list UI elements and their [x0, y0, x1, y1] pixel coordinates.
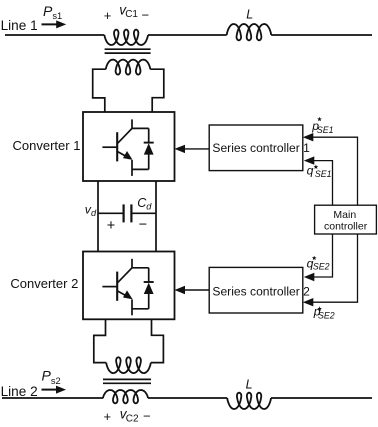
wire Line 2 left segment [2, 397, 103, 399]
IGBT transistor [102, 259, 148, 316]
transformer T1 primary coil [104, 30, 148, 45]
svg-text:−: − [142, 8, 150, 23]
series controller 1 box [209, 125, 303, 171]
emitter arrowhead [123, 151, 133, 160]
svg-text:+: + [107, 218, 115, 234]
svg-text:SE1: SE1 [317, 125, 334, 135]
arrowhead pSE1 [303, 133, 314, 141]
svg-text:−: − [139, 217, 147, 233]
svg-text:SE1: SE1 [315, 169, 332, 179]
svg-text:Series controller 1: Series controller 1 [212, 141, 310, 155]
svg-text:SE2: SE2 [313, 262, 330, 272]
svg-text:C2: C2 [126, 414, 139, 425]
svg-text:Series controller 2: Series controller 2 [212, 285, 310, 299]
svg-text:L: L [246, 377, 253, 391]
transformer T1 secondary right lead [150, 69, 164, 112]
svg-text:Converter 1: Converter 1 [13, 138, 81, 153]
transformer T2 core [103, 378, 151, 380]
inductor L line 1 [227, 24, 272, 40]
arrow series controller 2 to converter 2 [184, 289, 210, 291]
arrow series controller 1 to converter 1 [184, 148, 210, 150]
arrow Ps2 flow [42, 389, 58, 391]
wire pSE1 from main controller [313, 137, 358, 205]
svg-text:+: + [104, 8, 112, 23]
svg-text:Converter 2: Converter 2 [10, 276, 78, 291]
DC link left wire [97, 181, 99, 252]
diode [144, 282, 154, 294]
svg-text:Main: Main [333, 209, 356, 221]
arrow Ps1 flow [42, 23, 58, 25]
wire qSE1 from main controller [314, 161, 333, 206]
converter 1 box [83, 112, 175, 181]
transformer T1 secondary coil [106, 60, 151, 75]
transformer T2 primary coil [103, 390, 148, 403]
wire pSE2 from main controller [313, 234, 358, 302]
main controller box [315, 205, 377, 234]
IGBT transistor [102, 119, 148, 175]
transformer T1 core [105, 48, 151, 50]
wire Line 2 middle segment [148, 397, 227, 399]
svg-text:q: q [307, 163, 314, 177]
svg-text:L: L [246, 7, 253, 21]
arrowhead qSE2 [304, 273, 315, 281]
diode [144, 143, 154, 155]
emitter arrowhead [123, 290, 133, 299]
svg-text:Line 1: Line 1 [1, 18, 38, 33]
transformer T1 secondary left lead [93, 69, 106, 112]
arrowhead qSE1 [304, 156, 315, 164]
svg-text:Line 2: Line 2 [1, 384, 38, 399]
wire Line 1 right segment [271, 34, 372, 36]
svg-text:+: + [104, 409, 112, 424]
DC link right wire [155, 181, 157, 252]
svg-text:C1: C1 [125, 9, 138, 20]
wire Line 1 left segment [5, 34, 104, 36]
svg-text:controller: controller [324, 220, 368, 232]
wire Line 2 right segment [271, 397, 372, 399]
wire qSE2 from main controller [314, 234, 333, 277]
transformer T2 secondary left lead [94, 319, 106, 362]
series controller 2 box [209, 267, 303, 313]
converter 2 box [83, 252, 175, 320]
transformer T2 secondary right lead [151, 319, 164, 362]
svg-text:SE2: SE2 [318, 310, 335, 320]
svg-text:−: − [143, 409, 151, 424]
arrowhead pSE2 [303, 298, 314, 306]
wire Line 1 middle segment [148, 34, 227, 36]
inductor L line 2 [227, 393, 271, 409]
capacitor Cd [98, 212, 124, 214]
transformer T2 secondary coil [106, 357, 151, 373]
